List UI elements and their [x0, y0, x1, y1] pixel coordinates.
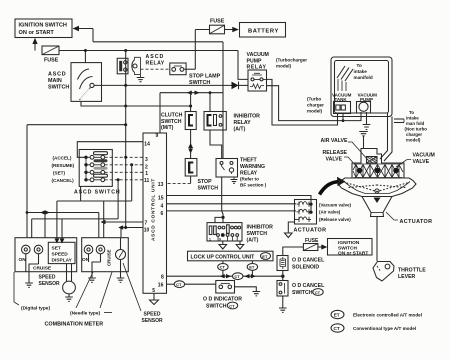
svg-text:Electronic controlled A/T mode: Electronic controlled A/T model — [353, 313, 422, 318]
grounds inhibitor switch — [219, 241, 244, 249]
label OD CANCEL SWITCH (CT) — [292, 283, 325, 296]
OD cancel switch box — [277, 281, 288, 297]
svg-text:FUSE: FUSE — [44, 58, 59, 64]
set speed display box — [48, 242, 75, 263]
svg-text:7: 7 — [145, 221, 148, 227]
wire ignition switch to fuse (arrow up into box) — [32, 38, 37, 51]
svg-text:model): model) — [307, 109, 323, 114]
node junction x=125.7 y=106 — [124, 105, 127, 108]
wire vacuum pump right pin to ground — [363, 112, 371, 130]
svg-text:(CANCEL): (CANCEL) — [52, 178, 75, 183]
label To intake manifold (in frame) — [354, 63, 373, 80]
ASCD main switch lever — [80, 83, 95, 100]
wire long horizontal y=124.7 — [27, 124, 126, 126]
svg-text:ON or START: ON or START — [338, 251, 368, 257]
node arrows pin7 — [101, 201, 106, 238]
svg-text:16: 16 — [158, 283, 164, 289]
svg-text:SWITCH: SWITCH — [292, 290, 313, 296]
svg-text:O D CANCEL: O D CANCEL — [292, 258, 325, 264]
diode D1 — [232, 82, 249, 90]
legend ET symbol — [331, 310, 422, 318]
ASCD switch CANCEL contacts — [84, 174, 107, 182]
svg-text:CT: CT — [234, 274, 240, 279]
svg-text:THROTTLE: THROTTLE — [398, 268, 426, 274]
svg-text:(Refer to: (Refer to — [240, 177, 259, 182]
svg-text:IGNITION: IGNITION — [338, 240, 360, 246]
svg-text:RELAY: RELAY — [146, 60, 165, 66]
svg-text:SENSOR: SENSOR — [142, 318, 164, 324]
wire ASCD switch row3 to pin 1 (dash-dot) — [105, 171, 143, 173]
vacuum tank box — [332, 93, 352, 114]
svg-text:RELAY: RELAY — [240, 171, 258, 177]
node junctions coil terminals — [309, 203, 312, 214]
node arrows on pin8 wire — [220, 274, 285, 278]
wire pin 4 to actuator coil 1 — [167, 203, 297, 205]
svg-text:(Release valve): (Release valve) — [319, 217, 351, 222]
svg-text:ASCD: ASCD — [146, 54, 165, 60]
node junctions on switch wires — [117, 156, 134, 182]
throttle lever shape — [373, 262, 394, 282]
svg-text:9: 9 — [219, 237, 221, 241]
wire from battery feed into ignition switch (arrow) — [73, 26, 94, 42]
svg-text:CRUISE: CRUISE — [107, 249, 112, 266]
wire actuator cable down to throttle lever — [376, 217, 378, 262]
svg-text:charger: charger — [307, 103, 324, 108]
vacuum hose frame (turbo loop) — [331, 57, 392, 117]
arrows into set speed display — [55, 239, 65, 244]
bulb ON (digital) — [19, 245, 31, 263]
svg-text:SET: SET — [52, 246, 61, 252]
node junction x=125.7 — [124, 49, 127, 52]
wire pin 9 vertical — [159, 93, 161, 133]
wire main switch lower output y=106 — [81, 101, 191, 106]
wires and grounds needle meter — [88, 254, 124, 283]
label (Digital type) with leader — [14, 272, 50, 312]
fuse F3 — [303, 238, 319, 251]
svg-text:(Turbocharger: (Turbocharger — [276, 58, 307, 63]
svg-text:model): model) — [276, 64, 292, 69]
label THROTTLE LEVER — [398, 268, 426, 281]
svg-text:To: To — [357, 63, 362, 68]
wire clutch switch bottom down to stop switch — [190, 130, 192, 159]
svg-text:O D INDICATOR: O D INDICATOR — [203, 297, 242, 303]
wire ASCD switch bottom bundle y=201 — [57, 186, 132, 242]
svg-text:To: To — [409, 110, 414, 115]
fuse F1 — [42, 46, 59, 64]
OD indicator switch box — [216, 281, 235, 294]
svg-text:(A/T): (A/T) — [234, 127, 246, 133]
wire ASCD relay output to stop lamp switch (dashed) — [141, 68, 170, 70]
svg-text:1: 1 — [209, 237, 211, 241]
vacuum pump relay box — [247, 52, 269, 91]
svg-text:THEFT: THEFT — [240, 158, 258, 164]
wire main switch output y=85.4 with diode feed — [94, 84, 232, 86]
svg-text:RELEASE: RELEASE — [323, 150, 348, 156]
wire pin 14 to ASCD switch common — [77, 142, 143, 158]
battery B1 box — [240, 23, 286, 38]
hose stub non-turbo to intake manifold — [394, 119, 404, 123]
speed sensor (digital) — [39, 264, 76, 302]
svg-text:(Non turbo: (Non turbo — [405, 127, 428, 132]
labels valve names — [319, 202, 352, 222]
wire ASCD switch row4 to pin 11 (dash-dot) — [105, 179, 143, 181]
node junction x=190.6 y=106 — [189, 105, 192, 108]
ground control unit pin 5 — [150, 293, 159, 304]
wire inhibitor relay drop x=210 — [209, 93, 211, 112]
svg-text:VACUUM: VACUUM — [247, 52, 269, 58]
label INHIBITOR SWITCH (A/T) — [247, 225, 274, 244]
inhibitor relay box — [204, 112, 260, 133]
CT oval below lock up unit left — [218, 261, 228, 276]
node junction x=125.7 y=85.4 — [124, 84, 127, 87]
wire pin 10 left — [118, 225, 143, 237]
svg-text:ON or START: ON or START — [19, 30, 55, 36]
hose stubs to intake manifold — [337, 66, 353, 91]
node junction x=85.4 — [84, 49, 87, 52]
node junction y=212.5 x=27 — [26, 211, 29, 214]
svg-text:intake: intake — [406, 116, 419, 121]
node arrows y=212.5 — [40, 210, 50, 237]
svg-text:(Turbo: (Turbo — [307, 97, 321, 102]
label OD CANCEL SOLENOID — [292, 258, 325, 271]
svg-text:(A/T): (A/T) — [247, 238, 259, 244]
svg-text:RELAY: RELAY — [234, 120, 252, 126]
svg-text:(SET): (SET) — [53, 171, 65, 176]
wire theft relay bottom to inhibitor switch — [215, 177, 225, 223]
wire pin 6 to actuator coil 2 — [167, 210, 297, 212]
svg-text:MAIN: MAIN — [48, 78, 62, 84]
svg-text:10: 10 — [144, 228, 150, 234]
label SPEED SENSOR (right) with leader — [123, 263, 163, 324]
label ACTUATOR (mechanical) with leader — [386, 212, 432, 225]
svg-text:IGNITION SWITCH: IGNITION SWITCH — [19, 23, 67, 29]
svg-text:SWITCH: SWITCH — [206, 303, 227, 309]
wire ignition feed y=41.8 — [93, 41, 223, 43]
actuator diaphragm dome — [338, 178, 416, 197]
svg-text:ASCD CONTROL UNIT: ASCD CONTROL UNIT — [151, 178, 157, 241]
svg-text:5: 5 — [152, 288, 155, 294]
stop lamp switch box — [170, 63, 221, 86]
svg-text:(Needle type): (Needle type) — [70, 311, 101, 317]
wire x=85.4 into main switch — [84, 51, 86, 64]
wire branch x=118.1 down — [117, 180, 119, 219]
svg-text:1: 1 — [145, 171, 148, 177]
svg-text:(Digital type): (Digital type) — [21, 306, 50, 312]
wire ASCD switch row1 to pin 3 (dash-dot) — [105, 156, 143, 158]
wire pin 7 left — [104, 221, 143, 223]
fuse F2 (battery) — [210, 19, 225, 34]
svg-text:ON: ON — [19, 257, 27, 263]
svg-text:VALVE: VALVE — [413, 159, 430, 165]
svg-text:AIR VALVE: AIR VALVE — [321, 138, 348, 144]
svg-text:(ACCEL): (ACCEL) — [53, 156, 72, 161]
ASCD relay coil arc and ground — [132, 57, 144, 81]
svg-text:SWITCH: SWITCH — [198, 186, 219, 192]
svg-text:charger: charger — [406, 132, 422, 137]
bold arrow to mechanical actuator — [320, 182, 340, 195]
wire left riser x=27 — [26, 125, 28, 238]
svg-text:CT: CT — [334, 326, 340, 331]
wire fuse to ignition switch 2 (arrow) — [318, 244, 327, 249]
ASCD main switch S1 box — [48, 63, 102, 102]
legend CT symbol — [331, 324, 416, 332]
svg-text:CT: CT — [176, 282, 182, 287]
ignition switch 1 box — [15, 19, 72, 38]
svg-text:intake: intake — [354, 69, 368, 74]
svg-text:STOP: STOP — [198, 179, 213, 185]
wire bulbs digital down + ground — [25, 254, 38, 288]
wire inhibitor relay bottom drop — [210, 130, 222, 159]
node junction x=125.7 y=124.7 — [124, 123, 127, 126]
svg-text:(RESUME): (RESUME) — [52, 163, 75, 168]
svg-text:SENSOR: SENSOR — [39, 281, 61, 287]
wire pin 15 to actuator coils — [167, 196, 312, 213]
svg-text:O D CANCEL: O D CANCEL — [292, 283, 325, 289]
wire OD indicator to ground — [235, 287, 261, 296]
svg-text:COMBINATION METER: COMBINATION METER — [45, 322, 104, 328]
vacuum hose down right side to vacuum valve — [380, 113, 392, 161]
ground actuator solenoids — [285, 219, 297, 237]
svg-text:(M/T): (M/T) — [161, 125, 174, 131]
svg-text:INHIBITOR: INHIBITOR — [247, 225, 274, 231]
wire pin 16 with CT oval — [167, 281, 216, 288]
wire pin9 feed y=92.7 — [160, 92, 223, 94]
label To intake manifold (Non-turbo charger model) — [405, 110, 428, 143]
svg-text:CT: CT — [229, 303, 235, 308]
svg-text:ASCD: ASCD — [48, 72, 66, 78]
svg-text:VALVE: VALVE — [326, 156, 343, 162]
svg-text:4: 4 — [161, 204, 164, 210]
ASCD switch SET contacts — [84, 167, 107, 175]
inhibitor switch (A/T) box — [207, 223, 242, 242]
svg-text:ET: ET — [249, 265, 255, 270]
svg-text:Conventional type A/T model: Conventional type A/T model — [353, 326, 416, 331]
wire stop switch to pin13 (dashed) — [190, 176, 192, 183]
svg-text:LEVER: LEVER — [398, 274, 416, 280]
svg-text:VACUUM: VACUUM — [413, 153, 435, 159]
wire long vertical x=125.7 — [125, 51, 127, 228]
label RELEASE VALVE with leader — [323, 150, 358, 167]
svg-text:LOCK UP CONTROL UNIT: LOCK UP CONTROL UNIT — [191, 255, 256, 261]
svg-text:model): model) — [406, 138, 421, 143]
wire stop lamp switch right terminal up to battery line — [184, 68, 196, 70]
ASCD main switch contact arcs — [78, 69, 93, 89]
svg-text:SPEED: SPEED — [144, 312, 161, 318]
wire main feed y=50.5 — [59, 50, 238, 52]
svg-text:ET: ET — [334, 313, 340, 318]
bulb ON (needle) — [82, 245, 93, 263]
svg-text:SWITCH: SWITCH — [338, 245, 357, 251]
label OD INDICATOR SWITCH (CT) — [203, 297, 242, 310]
actuator solenoid box (electrical) — [295, 200, 317, 225]
speed sensor needle — [116, 238, 126, 260]
ASCD switch RESUME contacts — [84, 159, 107, 167]
svg-text:15: 15 — [158, 196, 164, 202]
actuator funnel — [362, 197, 392, 217]
theft warning relay box — [216, 158, 267, 188]
svg-text:CRUISE: CRUISE — [33, 266, 52, 272]
actuator valve block (hatched housing) — [352, 149, 404, 179]
svg-text:SWITCH: SWITCH — [48, 85, 69, 91]
svg-text:CT: CT — [220, 265, 226, 270]
wire bundle y=218.9 — [32, 219, 118, 242]
bulb CRUISE (digital) — [33, 245, 52, 271]
svg-text:8: 8 — [161, 275, 164, 281]
wire battery branch vertical x=195.3 — [195, 30, 209, 70]
svg-text:STOP LAMP: STOP LAMP — [189, 74, 221, 80]
wire vacuum pump relay outputs to tank/pump — [267, 79, 362, 125]
ASCD control unit box — [143, 133, 167, 293]
svg-text:9: 9 — [156, 133, 159, 139]
svg-text:SPEED: SPEED — [39, 275, 56, 281]
ET oval below lock up unit right — [247, 261, 257, 276]
wire pin 8 y=276.2 — [167, 273, 283, 280]
vacuum pump — [357, 93, 378, 114]
wire clutch switch drop x=190.6 — [190, 93, 192, 112]
wire solenoid bottom to junction — [282, 271, 284, 281]
combination meter digital type box — [15, 238, 77, 272]
svg-text:SWITCH: SWITCH — [247, 231, 268, 237]
svg-text:manifold: manifold — [354, 75, 373, 80]
label (Needle type) with leaders — [70, 272, 112, 317]
svg-text:BF section ): BF section ) — [240, 183, 267, 188]
ASCD switch box — [79, 150, 112, 187]
svg-text:3: 3 — [145, 157, 148, 163]
svg-text:man fold: man fold — [406, 121, 425, 126]
svg-text:BATTERY: BATTERY — [248, 28, 279, 34]
svg-text:DISPLAY: DISPLAY — [52, 258, 73, 264]
svg-text:SWITCH: SWITCH — [189, 80, 210, 86]
svg-text:INHIBITOR: INHIBITOR — [234, 114, 261, 120]
svg-text:13: 13 — [158, 182, 164, 188]
svg-text:SOLENOID: SOLENOID — [292, 264, 319, 270]
svg-text:(Air valve): (Air valve) — [319, 210, 341, 215]
label VACUUM VALVE with leader — [396, 153, 435, 168]
clutch switch (M/T) box — [161, 112, 196, 132]
svg-text:ACTUATOR: ACTUATOR — [294, 228, 327, 234]
label (Turbocharger model) — [276, 58, 307, 69]
svg-text:CT: CT — [315, 290, 321, 295]
ground OD cancel switch — [279, 296, 287, 312]
svg-text:ACTUATOR: ACTUATOR — [400, 219, 433, 225]
svg-text:CLUTCH: CLUTCH — [161, 113, 183, 119]
ignition switch 2 box — [328, 239, 373, 257]
lock up control unit box — [188, 251, 274, 261]
wire solenoid top to fuse — [283, 247, 304, 256]
OD cancel solenoid box — [277, 256, 288, 271]
label (Turbo charger model) second — [307, 97, 324, 114]
wire bundle y=212.5 — [27, 213, 99, 238]
ground theft warning relay — [231, 177, 238, 183]
svg-text:6: 6 — [161, 211, 164, 217]
wire branch x=131.7 down — [131, 165, 133, 201]
svg-text:PUMP: PUMP — [247, 58, 263, 64]
ASCD relay R1 — [117, 54, 165, 74]
ASCD switch ACCEL contacts — [84, 152, 107, 160]
svg-text:WARNING: WARNING — [240, 164, 265, 170]
wire fuse to battery with arrow — [225, 27, 239, 33]
svg-text:FUSE: FUSE — [210, 19, 225, 25]
svg-text:2: 2 — [145, 164, 148, 170]
wire vertical x=223 ignition feed down to relays — [222, 42, 224, 159]
stop switch box — [185, 159, 218, 192]
ground above actuator valve block — [359, 132, 367, 150]
combination meter needle type box — [82, 238, 129, 272]
svg-text:SWITCH: SWITCH — [161, 119, 182, 125]
svg-text:11: 11 — [144, 178, 150, 184]
wire x=238 feed down to vacuum pump relay — [238, 51, 248, 80]
svg-text:SPEED: SPEED — [52, 252, 69, 258]
wire ASCD switch row2 to pin 2 (dash-dot) — [105, 164, 143, 166]
svg-text:ET: ET — [262, 254, 268, 259]
label AIR VALVE with leader — [321, 138, 369, 160]
svg-text:(Vacuum valve): (Vacuum valve) — [319, 202, 352, 207]
svg-text:14: 14 — [144, 142, 150, 148]
node junction arrows on y=92.7 — [187, 91, 212, 95]
bulb CRUISE (needle) — [96, 245, 111, 266]
